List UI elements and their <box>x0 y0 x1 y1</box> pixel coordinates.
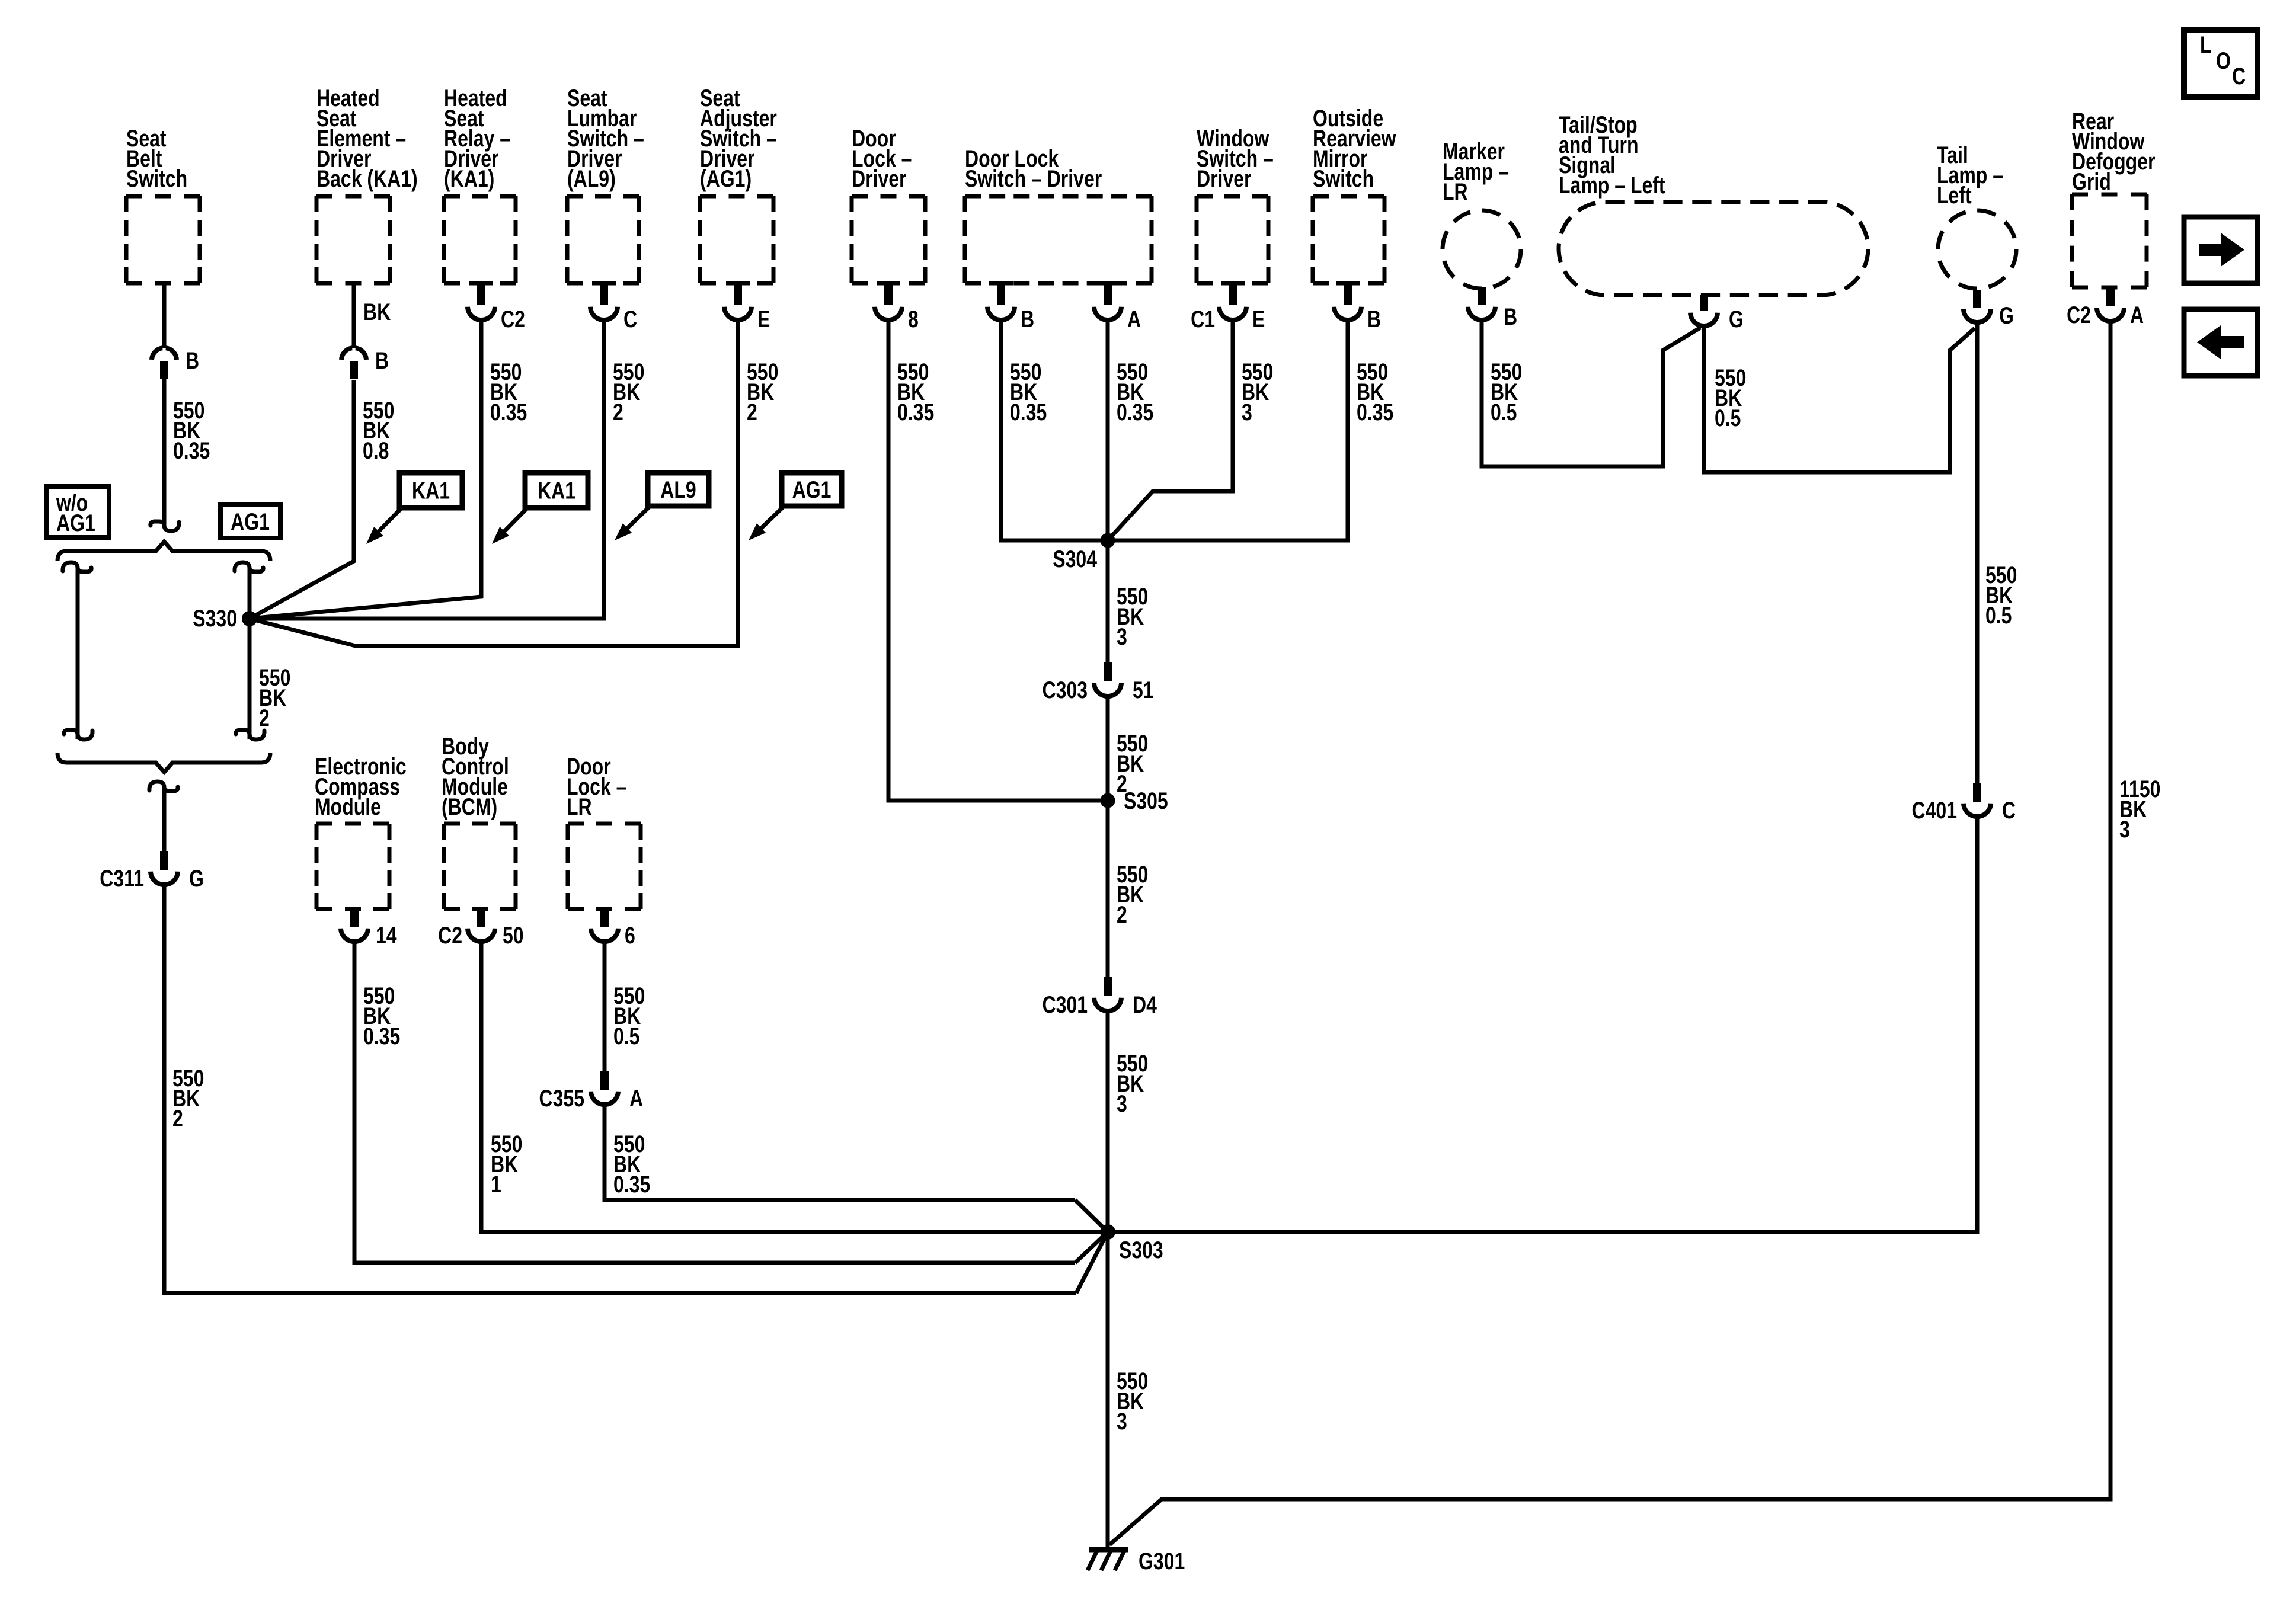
component box: door lock switch - driver <box>965 194 1152 199</box>
svg-text:Switch – Driver: Switch – Driver <box>965 165 1102 192</box>
wire: door lock LR to C355 <box>603 942 607 1072</box>
component box: mirror <box>1313 194 1384 199</box>
svg-text:2: 2 <box>1117 901 1127 928</box>
hook below bottom brace <box>149 782 178 791</box>
svg-text:C301: C301 <box>1042 991 1088 1018</box>
svg-text:S303: S303 <box>1119 1237 1163 1263</box>
connector B (seatbelt) <box>152 348 162 360</box>
svg-text:C401: C401 <box>1911 797 1957 824</box>
svg-text:1: 1 <box>491 1171 501 1198</box>
connector G (tail/stop lamp) <box>1700 295 1708 311</box>
svg-text:LR: LR <box>1443 178 1468 205</box>
wire: door lock driver to S305 <box>888 321 1108 801</box>
connector C303 <box>1104 662 1112 681</box>
svg-text:0.35: 0.35 <box>173 437 210 464</box>
svg-text:O: O <box>2216 47 2231 74</box>
svg-text:BK: BK <box>363 299 391 325</box>
svg-text:0.35: 0.35 <box>613 1171 650 1198</box>
svg-text:C: C <box>2232 63 2246 89</box>
svg-text:LR: LR <box>567 793 592 820</box>
svg-text:Left: Left <box>1937 182 1972 209</box>
wire: compass to S303 <box>354 942 1075 1263</box>
component circle: marker lamp <box>1443 210 1521 289</box>
svg-text:(AL9): (AL9) <box>567 165 616 192</box>
connector 8 (doorlock) <box>877 281 900 286</box>
LOC legend box <box>2184 30 2257 97</box>
component outline: tail/stop lamp <box>1559 202 1868 295</box>
connector C311 <box>160 851 168 870</box>
svg-text:S305: S305 <box>1124 788 1168 814</box>
svg-text:8: 8 <box>908 306 919 332</box>
svg-text:G301: G301 <box>1139 1548 1185 1574</box>
top brace <box>57 542 270 561</box>
svg-text:Grid: Grid <box>2072 168 2111 195</box>
svg-text:3: 3 <box>1117 1408 1127 1435</box>
wire: heated seat element to S330 <box>250 380 354 619</box>
svg-text:B: B <box>1504 303 1517 330</box>
component box: heatrelay <box>444 194 516 199</box>
wire: door lock switch B to S304 <box>1001 321 1108 540</box>
svg-text:Back (KA1): Back (KA1) <box>316 165 418 192</box>
wire: defogger to ground <box>1109 322 2110 1545</box>
tag KA1 (element) <box>399 473 462 508</box>
left-arrow box <box>2184 309 2257 376</box>
svg-text:Switch: Switch <box>1313 165 1374 192</box>
wire: seat lumbar switch to S330 <box>250 321 604 619</box>
svg-text:AG1: AG1 <box>56 510 95 536</box>
component box: compass <box>316 822 389 826</box>
svg-text:C2: C2 <box>438 922 462 949</box>
wire stub seatbelt <box>162 281 167 348</box>
connector G (tail lamp) <box>1973 290 1981 308</box>
hook bottom of left option wire <box>64 730 92 740</box>
hook at seat belt wire end <box>151 521 179 531</box>
svg-text:6: 6 <box>625 922 635 949</box>
svg-text:B: B <box>1021 306 1034 332</box>
component box: lumbar <box>567 194 639 199</box>
ground G301 <box>1089 1547 1128 1553</box>
svg-text:AG1: AG1 <box>231 508 270 535</box>
svg-text:AG1: AG1 <box>792 476 832 503</box>
svg-text:0.35: 0.35 <box>1357 399 1393 425</box>
wire: S303 to ground <box>1106 1232 1110 1550</box>
connector A (door lock switch) <box>1096 281 1120 286</box>
connector C2 (heatrelay) <box>469 281 493 286</box>
svg-text:C1: C1 <box>1191 306 1215 332</box>
svg-text:C355: C355 <box>539 1085 584 1112</box>
svg-text:0.35: 0.35 <box>490 399 527 425</box>
tag KA1 (relay) <box>525 473 588 508</box>
connector C (lumbar) <box>592 281 616 286</box>
connector E (adjuster) <box>726 281 750 286</box>
wire: marker lamp to tail/stop net <box>1482 321 1700 466</box>
svg-text:Driver: Driver <box>852 165 907 192</box>
svg-text:E: E <box>1252 306 1265 332</box>
svg-text:E: E <box>757 306 770 332</box>
svg-text:3: 3 <box>1242 399 1252 425</box>
svg-text:C: C <box>623 306 637 332</box>
svg-text:(KA1): (KA1) <box>444 165 494 192</box>
svg-text:0.35: 0.35 <box>897 399 934 425</box>
wire: BCM to S303 <box>481 942 1108 1232</box>
svg-text:Driver: Driver <box>1197 165 1252 192</box>
wire: S305 to C301 <box>1106 801 1110 977</box>
svg-text:D4: D4 <box>1133 991 1157 1018</box>
connector 14 (compass) <box>350 909 359 927</box>
component box: seatbelt <box>126 194 200 199</box>
svg-text:0.35: 0.35 <box>363 1023 400 1049</box>
connector 6 (door lock LR) <box>600 909 609 927</box>
connector E (window) <box>1221 281 1245 286</box>
component box: doorlock <box>852 194 925 199</box>
w/o AG1 tag box <box>46 486 109 537</box>
AG1 tag box <box>220 505 280 538</box>
svg-text:2: 2 <box>259 705 270 731</box>
wire: diagonal into S303 (C355 run) <box>1075 1200 1108 1232</box>
svg-text:0.35: 0.35 <box>1117 399 1153 425</box>
wire: C401 to S303 run <box>1108 817 1977 1232</box>
svg-text:2: 2 <box>613 399 623 425</box>
hook top of left option wire <box>63 562 91 572</box>
right-arrow box <box>2184 217 2257 283</box>
svg-text:G: G <box>1999 302 2014 329</box>
connector B (heatelem) <box>341 348 352 360</box>
splice S305 <box>1101 793 1115 808</box>
svg-text:C311: C311 <box>100 865 144 892</box>
svg-text:3: 3 <box>1117 623 1127 650</box>
wire: seat belt switch down <box>162 379 167 525</box>
svg-text:G: G <box>189 865 204 892</box>
wire: C355 to S303 <box>605 1105 1075 1200</box>
svg-text:(BCM): (BCM) <box>442 793 497 820</box>
connector C355 <box>600 1071 609 1090</box>
svg-text:KA1: KA1 <box>412 477 450 504</box>
wire: brace to C311 <box>162 788 167 853</box>
wire: left option (w/o AG1) <box>76 569 80 739</box>
svg-text:B: B <box>186 347 199 374</box>
svg-text:0.8: 0.8 <box>363 437 389 464</box>
wire: tail lamp to C401 <box>1975 323 1980 783</box>
svg-text:0.5: 0.5 <box>1491 399 1517 425</box>
svg-text:2: 2 <box>172 1105 183 1132</box>
hook bottom of right option wire <box>236 730 264 740</box>
component box: heatelem <box>316 194 390 199</box>
svg-text:14: 14 <box>376 922 397 949</box>
splice S303 <box>1100 1224 1115 1240</box>
connector C2/50 (BCM) <box>477 909 485 927</box>
wire: seat adjuster switch to S330 <box>250 321 738 646</box>
tag AG1 arrow <box>782 473 842 506</box>
connector B (door lock switch) <box>989 281 1013 286</box>
svg-text:AL9: AL9 <box>660 476 696 503</box>
svg-text:B: B <box>375 347 389 374</box>
svg-text:0.5: 0.5 <box>1985 602 2012 629</box>
splice S330 <box>242 611 257 626</box>
svg-text:C2: C2 <box>2067 302 2091 328</box>
svg-text:A: A <box>629 1085 643 1112</box>
connector C2/A (defogger) <box>2106 287 2115 306</box>
wire: mirror switch B to S304 <box>1108 321 1348 540</box>
svg-text:B: B <box>1367 306 1381 332</box>
splice S304 <box>1101 533 1115 548</box>
svg-text:Lamp – Left: Lamp – Left <box>1559 172 1665 199</box>
component box: window <box>1197 194 1268 199</box>
svg-text:S330: S330 <box>193 605 237 632</box>
svg-text:0.35: 0.35 <box>1010 399 1047 425</box>
component box: defogger grid <box>2072 193 2147 197</box>
component box: BCM <box>444 822 516 826</box>
component circle: tail lamp <box>1938 210 2016 289</box>
connector B (marker lamp) <box>1478 287 1486 305</box>
svg-text:KA1: KA1 <box>538 477 575 504</box>
svg-text:Module: Module <box>315 793 381 820</box>
svg-text:0.5: 0.5 <box>613 1023 639 1049</box>
svg-text:3: 3 <box>1117 1090 1127 1117</box>
svg-text:S304: S304 <box>1053 546 1097 572</box>
wire: right option (AG1) <box>248 569 252 739</box>
svg-text:3: 3 <box>2119 816 2130 843</box>
wire stub heatelem <box>352 281 356 348</box>
svg-text:0.5: 0.5 <box>1715 405 1741 431</box>
wire: C303 to S305 <box>1106 697 1110 801</box>
wire: C311 down and right to S303 <box>164 885 1076 1293</box>
svg-text:C303: C303 <box>1042 677 1088 703</box>
connector B (mirror) <box>1336 281 1360 286</box>
svg-text:Switch: Switch <box>126 165 187 192</box>
svg-text:2: 2 <box>747 399 757 425</box>
tag AL9 <box>648 473 709 506</box>
wire: A column from connector to C303 <box>1106 321 1110 664</box>
connector C401 <box>1973 783 1981 802</box>
wire: diagonal into S303 (from C311 run) <box>1076 1232 1108 1293</box>
wire: C301 to S303 <box>1106 1012 1110 1232</box>
bottom brace <box>57 753 270 772</box>
wire: heated seat relay to S330 <box>250 321 481 619</box>
wire: window switch E to S304 <box>1108 321 1233 540</box>
connector C301 <box>1104 977 1112 996</box>
component box: door lock LR <box>568 822 641 826</box>
svg-text:C: C <box>2002 797 2016 824</box>
svg-text:C2: C2 <box>501 306 525 332</box>
svg-text:A: A <box>2130 302 2144 328</box>
wire: diagonal into S303 (compass run) <box>1075 1232 1108 1263</box>
wire: tail/stop G down and to tail lamp <box>1704 327 1975 472</box>
svg-text:L: L <box>2200 31 2212 58</box>
svg-text:G: G <box>1729 306 1744 332</box>
svg-text:A: A <box>1127 306 1141 332</box>
svg-text:50: 50 <box>503 922 524 949</box>
svg-text:(AG1): (AG1) <box>700 165 752 192</box>
hook top of right option wire <box>235 562 263 572</box>
svg-text:51: 51 <box>1133 677 1154 703</box>
component box: adjuster <box>700 194 773 199</box>
